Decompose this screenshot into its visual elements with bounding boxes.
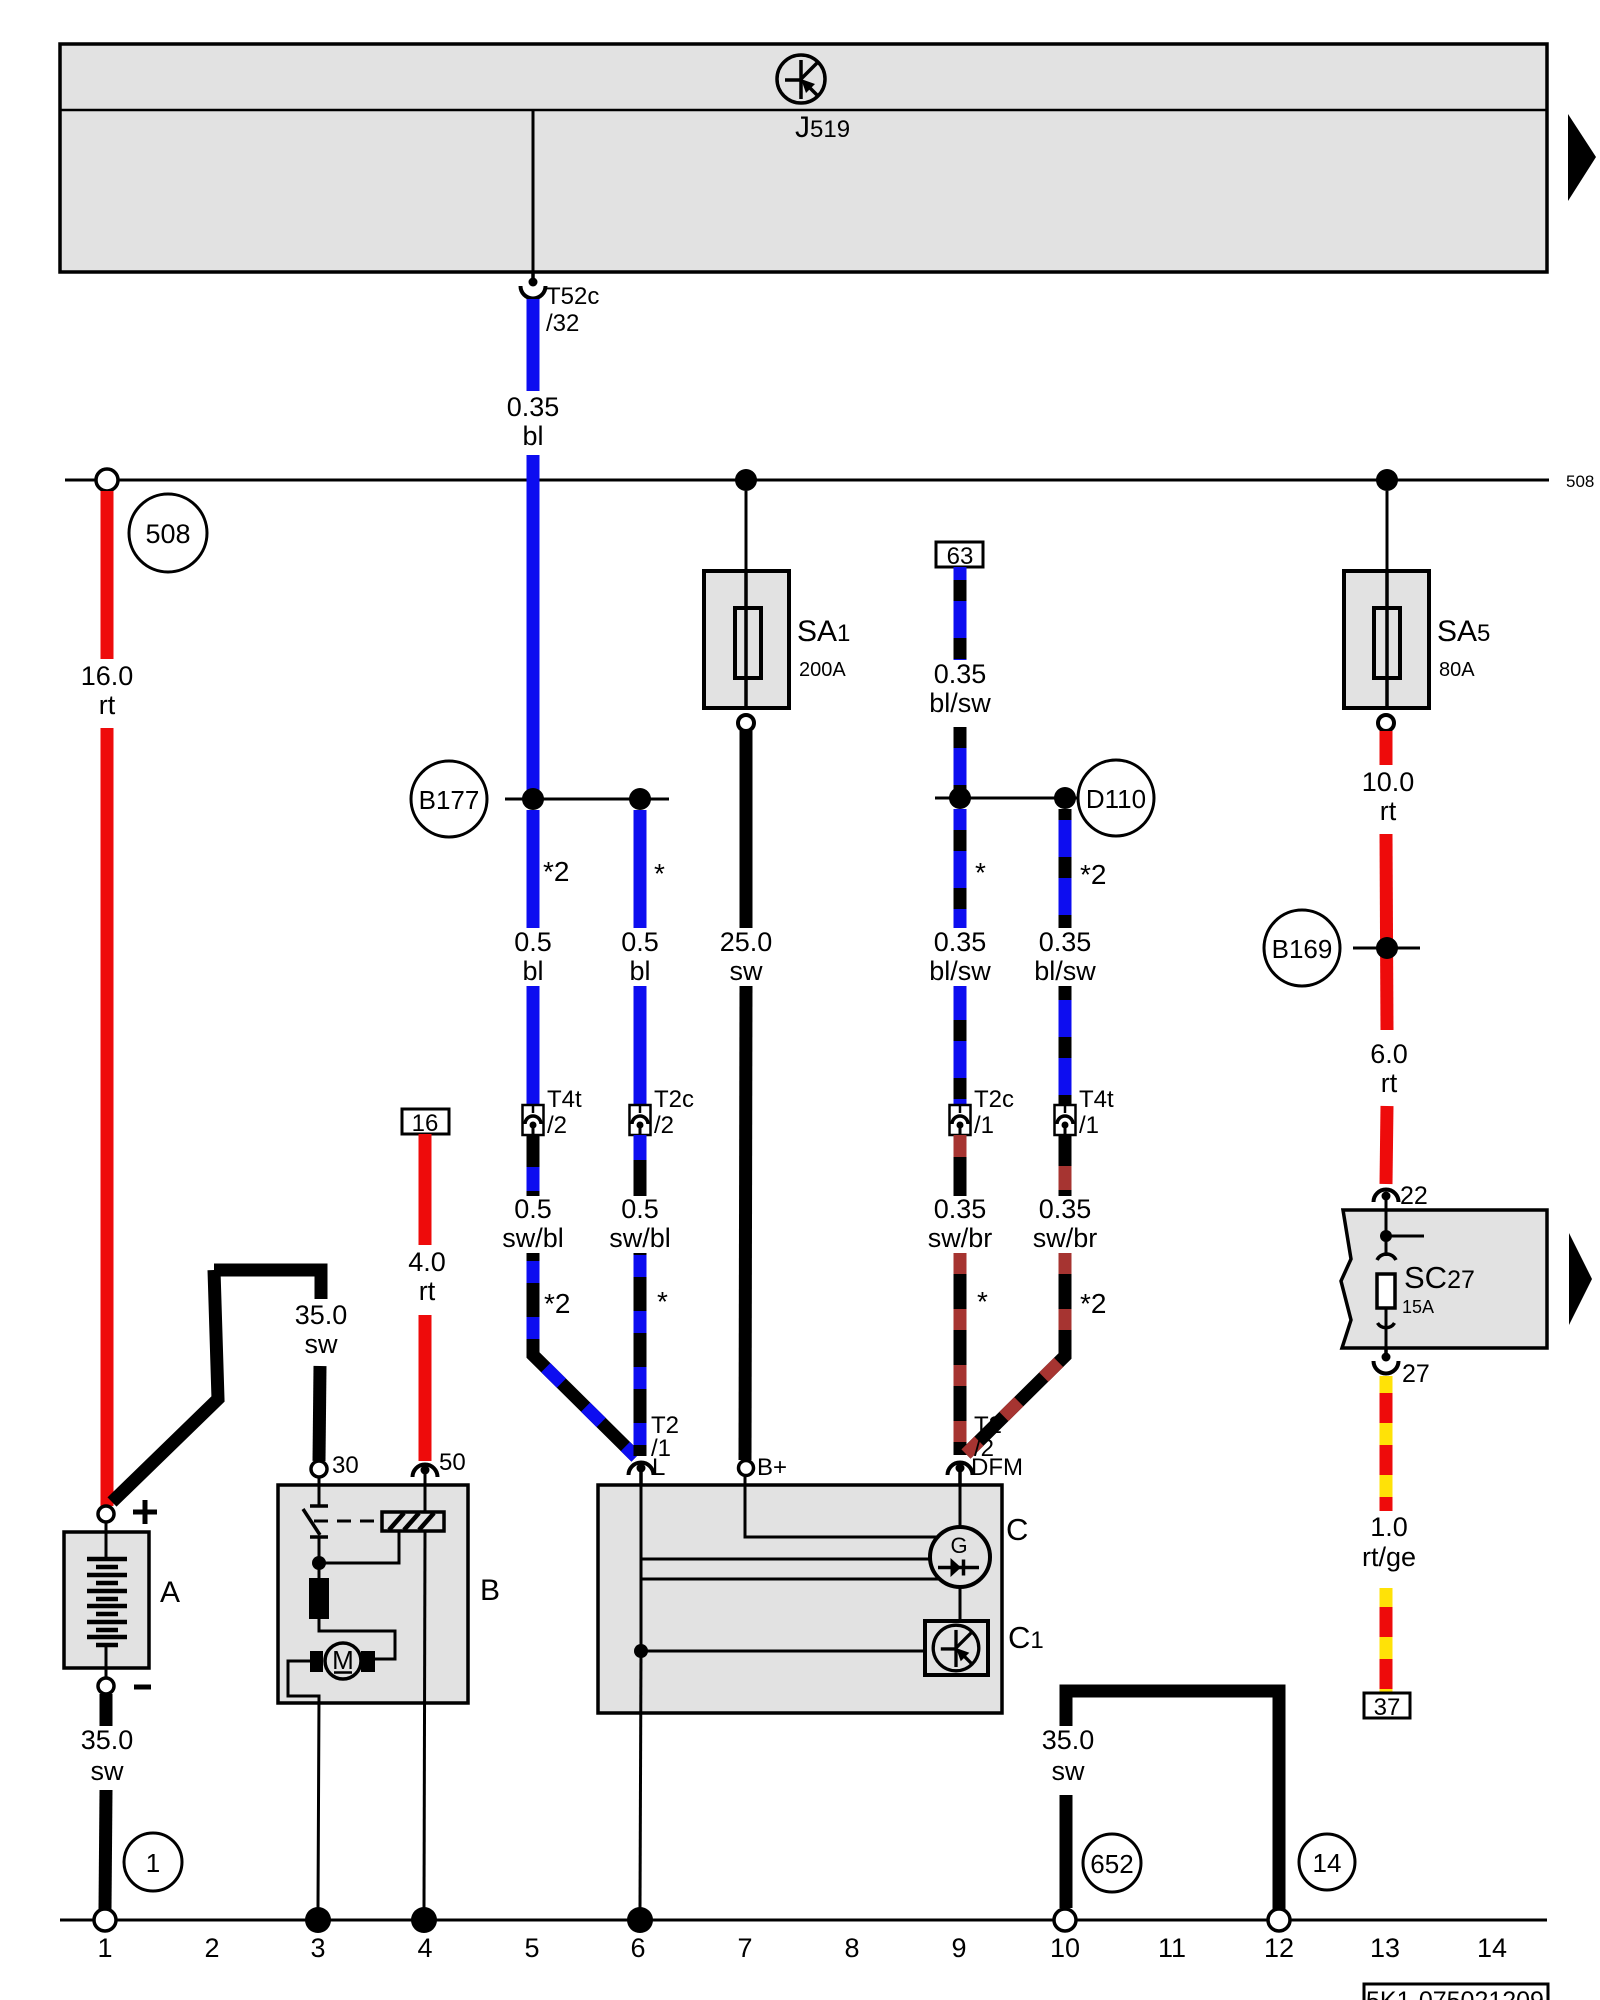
wire C to ground 6 (640, 1651, 641, 1908)
svg-text:*2: *2 (1080, 1288, 1106, 1319)
svg-text:rt/ge: rt/ge (1362, 1542, 1416, 1572)
starter B box (278, 1485, 468, 1703)
bus 508 horizontal line (65, 479, 1549, 482)
svg-text:5K1-075021209: 5K1-075021209 (1366, 1987, 1544, 2000)
arrow right of SC27 (1569, 1233, 1592, 1325)
alternator C box (598, 1485, 1002, 1713)
terminal L (arc + pin) (629, 1454, 666, 1486)
K symbol in J519 (777, 55, 825, 103)
svg-text:0.35: 0.35 (507, 392, 560, 422)
terminal 37 box (1364, 1693, 1410, 1721)
svg-text:0.35: 0.35 (1039, 927, 1092, 957)
wire B+ inside C (745, 1476, 939, 1537)
terminal 30 circle (311, 1452, 359, 1479)
battery plates (87, 1559, 127, 1645)
generator G symbol (930, 1527, 990, 1587)
svg-text:SA1: SA1 (797, 615, 850, 648)
svg-text:sw: sw (305, 1329, 339, 1359)
svg-text:G: G (950, 1533, 967, 1558)
svg-text:D110: D110 (1086, 784, 1146, 814)
svg-text:8: 8 (844, 1933, 859, 1963)
svg-text:bl: bl (522, 421, 543, 451)
svg-text:6: 6 (630, 1933, 645, 1963)
svg-text:sw: sw (1052, 1756, 1086, 1786)
wire 35.0 sw bridge 10 to 12 (1066, 1691, 1279, 1909)
svg-text:sw: sw (730, 956, 764, 986)
control unit J519 box (60, 44, 1547, 272)
motor M in B (310, 1643, 375, 1679)
svg-text:*2: *2 (543, 856, 569, 887)
wire 35.0 sw battery+ to 30 (bent) (112, 1270, 321, 1502)
svg-text:0.5: 0.5 (514, 1194, 552, 1224)
svg-text:L: L (652, 1454, 665, 1481)
svg-text:B: B (480, 1574, 500, 1607)
svg-text:652: 652 (1090, 1849, 1133, 1879)
wire L inside C (640, 1486, 643, 1651)
svg-text:4.0: 4.0 (408, 1247, 446, 1277)
terminal B+ circle (739, 1454, 788, 1481)
ground terminal 1 (open) (94, 1909, 116, 1931)
svg-text:*2: *2 (1080, 859, 1106, 890)
wire inside J519 to T52c (532, 110, 535, 272)
wire 0.35 bl/sw left branch (954, 809, 967, 1105)
svg-text:/1: /1 (974, 1112, 994, 1139)
svg-text:bl: bl (629, 956, 650, 986)
ground terminal 12 (open) (1268, 1909, 1290, 1931)
circle label D110 (1078, 760, 1154, 836)
svg-text:11: 11 (1158, 1933, 1186, 1963)
circle label 1 (124, 1833, 182, 1891)
svg-text:*2: *2 (544, 1288, 570, 1319)
wire 50 through B to ground 4 (424, 1486, 427, 1512)
svg-text:*: * (977, 1286, 988, 1317)
wire 0.35 bl/sw from 63 to D110 (954, 567, 967, 798)
wire 0.35 sw/br left (T2c/1 to DFM, straight) (954, 1135, 967, 1455)
svg-text:bl/sw: bl/sw (1034, 956, 1096, 986)
wire 0.35 sw/br right (T4t/1 to DFM, bent) (966, 1135, 1065, 1454)
switch in B (303, 1477, 328, 1578)
ground terminal 4 (dot) (411, 1907, 437, 1933)
terminal 16 box (402, 1109, 449, 1137)
part number box (1364, 1984, 1548, 2000)
svg-text:0.35: 0.35 (1039, 1194, 1092, 1224)
svg-text:37: 37 (1374, 1694, 1401, 1721)
battery - terminal (98, 1645, 151, 1694)
svg-text:80A: 80A (1439, 659, 1475, 681)
svg-text:15A: 15A (1402, 1297, 1434, 1317)
svg-text:C: C (1006, 1512, 1028, 1547)
svg-text:25.0: 25.0 (720, 927, 773, 957)
connector T4t/2 (523, 1105, 544, 1135)
svg-text:*: * (657, 1286, 668, 1317)
svg-text:10: 10 (1050, 1933, 1080, 1963)
node 508 terminal circle (battery feed) (96, 469, 118, 491)
svg-text:200A: 200A (799, 659, 846, 681)
wire 10.0 rt (SA5 down) (1386, 731, 1387, 1030)
wire L to G (upper) (641, 1558, 931, 1561)
svg-text:B+: B+ (757, 1454, 787, 1481)
junction dot SA5 on bus (1376, 469, 1398, 491)
svg-text:/2: /2 (547, 1112, 567, 1139)
terminal DFM (arc + pin) (948, 1454, 1023, 1486)
resistor in B (309, 1578, 329, 1619)
ground terminal 6 (dot) (627, 1907, 653, 1933)
wire 0.5 sw/bl right (T2c/2 to L, straight) (634, 1135, 647, 1456)
svg-text:6.0: 6.0 (1370, 1039, 1408, 1069)
svg-text:sw/br: sw/br (928, 1223, 993, 1253)
svg-text:1: 1 (97, 1933, 112, 1963)
svg-text:bl/sw: bl/sw (929, 688, 991, 718)
svg-text:508: 508 (1566, 472, 1594, 491)
wire junction to C1 (641, 1650, 937, 1653)
svg-text:/2: /2 (654, 1112, 674, 1139)
terminal 50 (arc + pin) (413, 1449, 466, 1486)
svg-text:sw/br: sw/br (1033, 1223, 1098, 1253)
svg-text:0.5: 0.5 (621, 1194, 659, 1224)
svg-text:T2c: T2c (974, 1086, 1014, 1113)
wire motor to ground 3 (288, 1661, 319, 1908)
svg-text:M: M (332, 1645, 354, 1675)
ground bus line (60, 1919, 1547, 1922)
wire L to G (diode axis) (641, 1578, 941, 1581)
svg-text:T4t: T4t (1079, 1086, 1114, 1113)
circle label 652 (1083, 1834, 1141, 1892)
junction dot in B (312, 1556, 326, 1570)
svg-text:27: 27 (1402, 1360, 1430, 1388)
wire 0.35 bl/sw right branch (1059, 809, 1072, 1105)
circle label 14 (1299, 1834, 1355, 1890)
junction dot inside C (634, 1644, 648, 1658)
svg-text:*: * (654, 858, 665, 889)
connector T2c/1 (950, 1105, 971, 1135)
svg-text:bl/sw: bl/sw (929, 956, 991, 986)
svg-text:35.0: 35.0 (295, 1300, 348, 1330)
ground terminal 3 (dot) (305, 1907, 331, 1933)
svg-text:35.0: 35.0 (1042, 1725, 1095, 1755)
svg-text:*: * (975, 857, 986, 888)
svg-text:0.35: 0.35 (934, 1194, 987, 1224)
solenoid coil in B (382, 1512, 444, 1531)
wire 35.0 sw battery minus (105, 1694, 106, 1909)
svg-text:0.5: 0.5 (514, 927, 552, 957)
svg-text:0.35: 0.35 (934, 659, 987, 689)
circle label B169 (1264, 910, 1340, 986)
voltage regulator C1 box (925, 1621, 988, 1675)
terminal 27 (pin + arc) (1374, 1349, 1430, 1388)
wire resistor to motor (319, 1619, 395, 1659)
svg-text:508: 508 (145, 519, 190, 549)
svg-text:9: 9 (951, 1933, 966, 1963)
svg-text:SA5: SA5 (1437, 615, 1490, 648)
svg-text:rt: rt (1381, 1068, 1398, 1098)
connector T4t/1 (1055, 1105, 1076, 1135)
wire 16.0 rt battery positive (101, 491, 114, 1506)
svg-text:bl: bl (522, 956, 543, 986)
svg-text:0.5: 0.5 (621, 927, 659, 957)
svg-text:16: 16 (412, 1110, 439, 1137)
svg-text:2: 2 (204, 1933, 219, 1963)
circle label 508 (129, 494, 207, 572)
svg-text:4: 4 (417, 1933, 432, 1963)
svg-text:30: 30 (332, 1452, 359, 1479)
svg-text:SC27: SC27 (1404, 1260, 1475, 1295)
connector T2c/2 (630, 1105, 651, 1135)
svg-text:T52c: T52c (546, 283, 599, 310)
junction dot SA1 on bus (735, 469, 757, 491)
svg-text:7: 7 (737, 1933, 752, 1963)
fuse panel SC27 box (torn edge) (1341, 1210, 1547, 1348)
wire G to C1 (959, 1587, 962, 1622)
wire DFM inside C (959, 1486, 962, 1528)
svg-text:12: 12 (1264, 1933, 1294, 1963)
battery + terminal (98, 1500, 157, 1524)
fuse SA5 (1344, 491, 1429, 731)
svg-text:rt: rt (1380, 796, 1397, 826)
wire 6.0 rt continues (1386, 1106, 1387, 1184)
wire 4.0 rt (16 to 50) (419, 1134, 432, 1461)
svg-text:22: 22 (1400, 1182, 1428, 1210)
svg-text:DFM: DFM (971, 1454, 1023, 1481)
arrow right of J519 (1568, 114, 1596, 201)
ground terminal 10 (open) (1054, 1909, 1076, 1931)
svg-text:T2c: T2c (654, 1086, 694, 1113)
terminal 63 box (936, 542, 983, 570)
battery A box (64, 1522, 149, 1668)
svg-text:B177: B177 (419, 785, 480, 815)
wire coil to junction (319, 1531, 399, 1563)
connector T52c/32 (521, 272, 600, 337)
wire 0.35 bl from T52c down across bus to B177 (527, 299, 540, 799)
node B169 (1353, 937, 1420, 959)
svg-text:0.35: 0.35 (934, 927, 987, 957)
svg-text:B169: B169 (1272, 934, 1333, 964)
svg-text:sw/bl: sw/bl (609, 1223, 671, 1253)
wire 0.5 sw/bl left (T4t/2 to L, bent) (533, 1135, 636, 1457)
svg-text:10.0: 10.0 (1362, 767, 1415, 797)
svg-text:1.0: 1.0 (1370, 1512, 1408, 1542)
dashed link switch to coil (314, 1520, 382, 1523)
svg-text:sw: sw (91, 1756, 125, 1786)
wire 1.0 rt/ge lower (1380, 1588, 1393, 1693)
grid numbers 1-14 (97, 1933, 1507, 1963)
svg-text:14: 14 (1313, 1848, 1342, 1878)
svg-text:sw/bl: sw/bl (502, 1223, 564, 1253)
svg-text:/1: /1 (1079, 1112, 1099, 1139)
svg-text:50: 50 (439, 1449, 466, 1476)
svg-text:rt: rt (99, 690, 116, 720)
svg-text:13: 13 (1370, 1933, 1400, 1963)
wire 0.5 bl left branch (527, 810, 540, 1105)
svg-text:T4t: T4t (547, 1086, 582, 1113)
terminal 22 (arc + pin) (1374, 1182, 1428, 1211)
svg-text:rt: rt (419, 1276, 436, 1306)
node B177 junction (505, 788, 669, 810)
SC27 internals (1377, 1210, 1424, 1349)
svg-text:1: 1 (146, 1848, 160, 1878)
svg-text:/32: /32 (546, 310, 579, 337)
svg-text:5: 5 (524, 1933, 539, 1963)
svg-text:A: A (160, 1576, 180, 1609)
svg-text:3: 3 (310, 1933, 325, 1963)
svg-text:63: 63 (947, 543, 974, 570)
wire 0.5 bl right branch (634, 810, 647, 1105)
svg-text:J519: J519 (795, 111, 850, 144)
node D110 junction (935, 787, 1079, 809)
svg-text:16.0: 16.0 (81, 661, 134, 691)
circle label B177 (411, 761, 487, 837)
fuse SA1 (704, 491, 789, 731)
wire 25.0 sw (SA1 to B+) (745, 731, 746, 1460)
svg-text:14: 14 (1477, 1933, 1507, 1963)
svg-text:35.0: 35.0 (81, 1725, 134, 1755)
wire 1.0 rt/ge upper (1380, 1376, 1393, 1511)
